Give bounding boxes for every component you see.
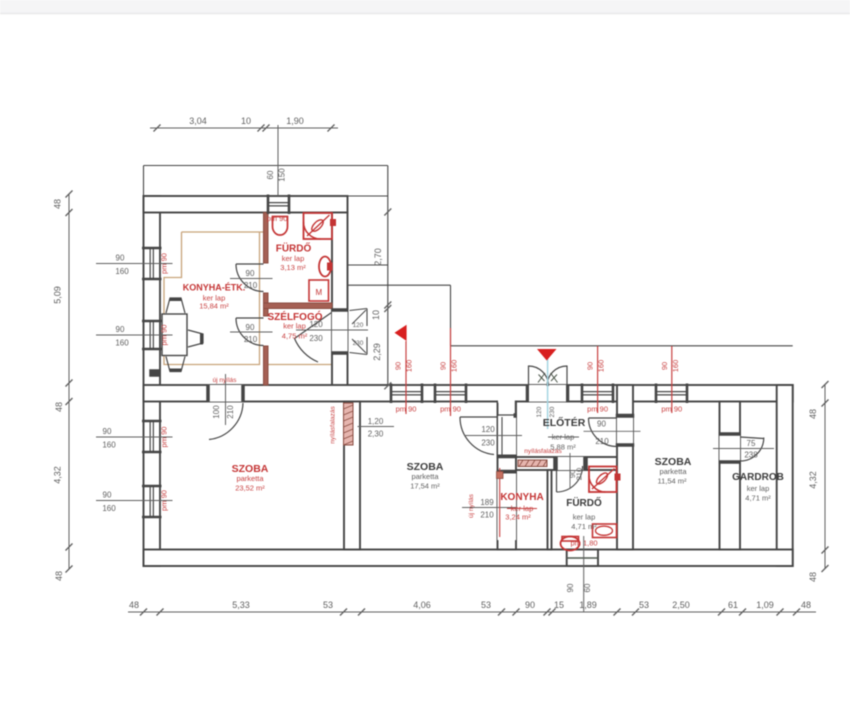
svg-text:75: 75 <box>747 439 756 448</box>
sink FURDO top <box>273 217 288 236</box>
svg-text:48: 48 <box>808 409 818 419</box>
top exterior wall of upper block <box>144 196 348 213</box>
jamb blocks door SZOBA11-GARDROB <box>719 433 741 436</box>
svg-text:KONYHA-ÉTK.: KONYHA-ÉTK. <box>183 283 246 293</box>
nyilasfalazas hatched piece in wall ELOTER/KONYHA <box>518 460 547 467</box>
new red wall left of SZELFOGO lower <box>264 346 269 385</box>
svg-text:48: 48 <box>54 571 64 581</box>
vertical dimension 2,70 / 10 / 2,29 <box>384 209 391 216</box>
svg-text:160: 160 <box>115 339 129 348</box>
red axis new window 2 <box>450 328 452 416</box>
svg-text:pm 90: pm 90 <box>440 405 461 414</box>
door D7 ELOTER to FURDO 90/210 <box>556 466 558 492</box>
svg-text:5,09: 5,09 <box>53 286 63 304</box>
svg-text:M: M <box>315 288 322 297</box>
window SZOBA11 right 90/160 <box>655 384 658 404</box>
entry triangle SZELFOGO (red, pointing left) <box>395 325 407 341</box>
left exterior wall <box>144 196 161 566</box>
svg-text:10: 10 <box>371 310 381 320</box>
shower FURDO top <box>304 213 333 239</box>
svg-text:pm 90: pm 90 <box>587 405 608 414</box>
svg-text:90: 90 <box>660 362 669 370</box>
window left wall SZOBA23 upper 90/160 <box>142 420 162 423</box>
chair right <box>188 330 203 347</box>
wall between ELOTER and KONYHA/FURDO <box>516 457 617 470</box>
courtyard step line <box>348 284 451 286</box>
opening u nyilas door <box>209 386 242 401</box>
wall between SZOBA 11,54 and GARDROB <box>720 402 741 550</box>
small red pier at 189 opening <box>497 472 504 479</box>
svg-text:1,90: 1,90 <box>286 116 304 126</box>
right dimension column <box>824 385 826 569</box>
svg-text:160: 160 <box>597 360 606 373</box>
opening door ELOTER-FURDO <box>558 458 584 469</box>
door D5 ELOTER entry double door 120/230 <box>528 366 530 387</box>
svg-text:120: 120 <box>536 406 543 417</box>
svg-text:ker lap: ker lap <box>282 254 305 263</box>
svg-text:48: 48 <box>53 199 63 209</box>
svg-text:160: 160 <box>102 441 116 450</box>
svg-text:48: 48 <box>54 402 64 412</box>
entry triangle ELOTER (red, pointing down) <box>537 349 557 361</box>
window left wall KONYHA-ETK upper 90/160 <box>142 247 162 250</box>
svg-text:4,75 m²: 4,75 m² <box>282 332 308 341</box>
jamb blocks door ELOTER-SZOBA11 <box>616 414 634 418</box>
wall between SZOBA 17,54 and ELOTER/KONYHA <box>498 402 517 550</box>
svg-text:2,29: 2,29 <box>372 343 382 361</box>
chimney witness line and 90/60 labels <box>583 536 585 612</box>
eaves line top of upper block <box>144 165 388 167</box>
door D2 KONYHA-ETK to SZELFOGO 90/210 <box>236 317 264 319</box>
red axis of 189 opening <box>499 468 501 537</box>
door D6 SZOBA17 to ELOTER 120/230 <box>460 416 498 418</box>
opening entry double door <box>529 386 567 401</box>
chimney step upper line <box>348 264 388 266</box>
wall pier at ELOTER top-left <box>498 400 515 403</box>
svg-text:pm 90: pm 90 <box>396 405 417 414</box>
svg-text:90: 90 <box>566 583 575 592</box>
svg-text:4,06: 4,06 <box>413 600 431 610</box>
svg-text:60: 60 <box>266 170 275 179</box>
chimney in bottom wall <box>567 550 598 567</box>
svg-text:4,32: 4,32 <box>53 466 63 484</box>
jamb blocks 189 opening <box>497 470 517 473</box>
svg-text:210: 210 <box>244 281 258 290</box>
courtyard corner vertical <box>450 285 452 346</box>
svg-text:150: 150 <box>278 168 287 182</box>
window SZOBA11 left 90/160 <box>581 384 584 404</box>
shower FURDO middle <box>589 467 617 493</box>
red axis new window 3 <box>597 346 599 413</box>
jamb blocks entry double door <box>526 385 529 402</box>
svg-text:160: 160 <box>671 360 680 373</box>
chimney mid line <box>567 557 598 559</box>
opening door SZOBA11-GARDROB <box>721 435 740 461</box>
svg-text:2,30: 2,30 <box>368 430 384 439</box>
door D3 SZELFOGO entry 120/230 leaf and swing <box>295 313 332 339</box>
svg-text:parketta: parketta <box>236 474 264 483</box>
jamb blocks szelfogo entry door <box>332 309 349 312</box>
svg-text:15,84 m²: 15,84 m² <box>199 302 229 311</box>
svg-text:parketta: parketta <box>411 472 439 481</box>
svg-text:90: 90 <box>103 491 112 500</box>
svg-text:2,50: 2,50 <box>672 600 690 610</box>
svg-text:100: 100 <box>212 405 221 419</box>
door D3 outside flap symbols <box>350 309 368 311</box>
svg-text:120: 120 <box>353 322 364 329</box>
svg-text:53: 53 <box>481 600 491 610</box>
svg-text:23,52 m²: 23,52 m² <box>235 483 265 492</box>
jamb blocks door SZOBA17-ELOTER <box>514 414 517 418</box>
svg-text:3,24 m²: 3,24 m² <box>505 513 531 522</box>
svg-text:238: 238 <box>744 451 758 460</box>
demolished wall line in SZELFOGO (tan) <box>268 364 331 366</box>
svg-text:4,32: 4,32 <box>808 471 818 489</box>
top dimension row <box>150 127 338 129</box>
svg-text:1,20: 1,20 <box>368 417 384 426</box>
opening door SZOBA17-ELOTER <box>499 417 516 455</box>
svg-text:230: 230 <box>353 340 364 347</box>
svg-text:1,89: 1,89 <box>579 600 597 610</box>
window left wall KONYHA-ETK lower 90/160 <box>142 320 162 323</box>
new red wall between doors <box>264 293 269 316</box>
svg-text:ker lap: ker lap <box>747 484 770 493</box>
svg-text:160: 160 <box>450 360 459 373</box>
chair bottom <box>166 357 185 372</box>
svg-text:parketta: parketta <box>659 467 687 476</box>
svg-text:230: 230 <box>549 406 556 417</box>
svg-text:230: 230 <box>481 439 495 448</box>
svg-text:210: 210 <box>575 468 584 481</box>
demolished wall outline (tan) in KONYHA-ETK <box>164 232 263 365</box>
new red wall left of FURDO (segment 1) <box>264 213 269 264</box>
toilet FURDO middle <box>561 537 580 551</box>
door D1 KONYHA-ETK to FURDO 90/210 <box>236 263 264 265</box>
window SZOBA17 left 90/160 <box>390 384 393 404</box>
svg-text:KONYHA: KONYHA <box>500 492 543 503</box>
wall between SZOBA 23,52 and SZOBA 17,54 <box>344 402 360 550</box>
east wall of FURDO/SZELFOGO <box>332 213 348 402</box>
door D8 ELOTER to SZOBA11 90/210 <box>589 417 618 419</box>
svg-text:48: 48 <box>129 600 139 610</box>
svg-text:5,88 m²: 5,88 m² <box>550 443 576 452</box>
window left wall SZOBA23 lower 90/160 <box>142 485 162 488</box>
svg-text:90: 90 <box>394 362 403 370</box>
svg-text:189: 189 <box>480 498 494 507</box>
svg-text:nyílásfalazás: nyílásfalazás <box>330 405 337 443</box>
svg-text:230: 230 <box>309 334 323 343</box>
svg-text:ker lap: ker lap <box>283 322 306 331</box>
left dimension column <box>68 194 70 569</box>
svg-text:pm 90: pm 90 <box>267 214 288 223</box>
svg-text:15: 15 <box>554 600 564 610</box>
door D4 u nyilas SZOBA23 100/210 <box>209 403 243 440</box>
svg-text:90: 90 <box>116 325 125 334</box>
window SZOBA17 right 90/160 <box>434 384 437 404</box>
svg-text:új nyílás: új nyílás <box>468 493 475 518</box>
bottom dimension row <box>128 611 816 613</box>
eaves + dimension line right of upper block <box>387 166 389 386</box>
door frame line D6 east <box>501 417 503 455</box>
svg-text:ELŐTÉR: ELŐTÉR <box>543 416 586 429</box>
svg-text:4,71 m²: 4,71 m² <box>745 494 771 503</box>
svg-text:ker lap: ker lap <box>573 513 596 522</box>
chair top <box>166 298 185 313</box>
opening door ELOTER-SZOBA11 <box>618 418 632 444</box>
door D9 SZOBA11 to GARDROB 75/238 <box>740 437 763 439</box>
washbasin FURDO middle <box>593 524 617 538</box>
svg-text:120: 120 <box>481 425 495 434</box>
svg-text:90: 90 <box>439 362 448 370</box>
svg-text:90: 90 <box>586 362 595 370</box>
jamb blocks door ELOTER-FURDO <box>554 457 558 470</box>
svg-text:90: 90 <box>103 427 112 436</box>
door frame line D6 west <box>497 415 499 458</box>
top wall outer face extension <box>348 195 388 197</box>
svg-text:10: 10 <box>241 116 251 126</box>
svg-text:FÜRDŐ: FÜRDŐ <box>566 496 602 509</box>
svg-text:pm 90: pm 90 <box>661 405 682 414</box>
jamb blocks u nyilas door <box>207 385 210 402</box>
bottom exterior wall <box>144 550 793 567</box>
eaves line of right wing <box>451 345 793 347</box>
svg-text:új nyílás: új nyílás <box>213 377 238 384</box>
svg-text:5,33: 5,33 <box>232 600 250 610</box>
notch top of wall stub below 189 opening <box>498 538 517 540</box>
new red wall between FURDO and SZELFOGO <box>264 303 333 309</box>
opening szelfogo entry door <box>333 311 347 352</box>
corner block left wall at room row junction <box>150 370 161 377</box>
svg-text:53: 53 <box>639 600 649 610</box>
svg-text:210: 210 <box>226 405 235 419</box>
entry axis line (cyan) at ELOTER door <box>547 358 549 429</box>
svg-text:160: 160 <box>405 360 414 373</box>
svg-text:90: 90 <box>246 269 255 278</box>
svg-text:48: 48 <box>801 600 811 610</box>
opening 189 SZOBA17-KONYHA <box>499 473 516 539</box>
svg-text:90: 90 <box>525 600 535 610</box>
svg-text:53: 53 <box>323 600 333 610</box>
dining table <box>162 314 187 356</box>
light gray strip at top edge <box>0 0 850 13</box>
svg-text:2,70: 2,70 <box>373 248 383 266</box>
red axis new window 1 (below triangle) <box>405 341 407 414</box>
toilet FURDO top <box>319 257 331 277</box>
nyilasfalazas hatched piece in wall SZOBA23/SZOBA17 <box>344 403 354 445</box>
svg-text:1,09: 1,09 <box>756 600 774 610</box>
red axis new window 4 <box>671 346 673 413</box>
svg-text:90: 90 <box>246 323 255 332</box>
svg-text:160: 160 <box>115 267 129 276</box>
svg-text:11,54 m²: 11,54 m² <box>657 477 687 486</box>
svg-text:48: 48 <box>808 572 818 582</box>
svg-text:GARDROB: GARDROB <box>732 472 784 483</box>
partition KONYHA/FURDO <box>548 470 552 550</box>
svg-text:210: 210 <box>244 335 258 344</box>
washing machine FURDO top <box>309 280 329 301</box>
top wall band of room row (continuous) <box>144 385 793 402</box>
svg-text:90: 90 <box>597 420 606 429</box>
svg-text:FÜRDŐ: FÜRDŐ <box>276 242 312 255</box>
svg-text:160: 160 <box>102 504 116 513</box>
svg-text:4,71 m²: 4,71 m² <box>571 522 597 531</box>
svg-text:61: 61 <box>728 600 738 610</box>
svg-text:3,13 m²: 3,13 m² <box>280 263 306 272</box>
top window witness line and 60/150 labels <box>277 125 279 196</box>
right exterior wall <box>777 385 793 566</box>
svg-text:3,04: 3,04 <box>189 116 207 126</box>
svg-text:210: 210 <box>480 511 494 520</box>
svg-text:17,54 m²: 17,54 m² <box>410 481 440 490</box>
svg-text:90: 90 <box>116 254 125 263</box>
eaves line left short <box>143 166 145 197</box>
wall between ELOTER-FURDO and SZOBA 11,54 <box>617 385 633 550</box>
window top wall FURDO 60/150 <box>267 195 270 215</box>
svg-text:210: 210 <box>595 437 609 446</box>
svg-text:60: 60 <box>583 583 592 592</box>
